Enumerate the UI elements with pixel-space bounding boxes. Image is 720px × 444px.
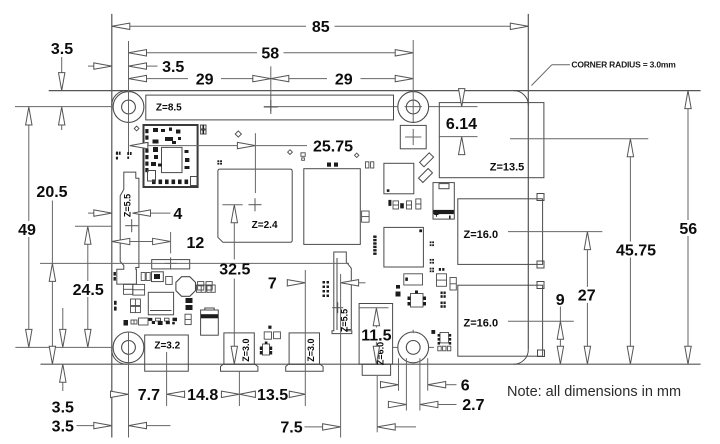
- left edge pad pairs: [114, 272, 117, 311]
- USB-C centerline extension: [166, 352, 168, 406]
- small pads top area: [134, 126, 359, 165]
- 6.14 reference line at hole row: [429, 106, 478, 108]
- components near DSI bottom: [141, 272, 172, 285]
- dimension 3.5 left edge to hole: [88, 59, 184, 76]
- svg-text:3.5: 3.5: [51, 41, 73, 58]
- electrolytic capacitor bottom-left: [201, 308, 219, 335]
- capacitors above capacitor: [197, 285, 216, 292]
- mounting hole bottom-left pad: [113, 332, 144, 363]
- upper USB centerline extension: [508, 231, 602, 233]
- dimension 2.7 hole diameter: [388, 397, 484, 414]
- board top edge line (with extensions): [49, 90, 701, 92]
- svg-text:20.5: 20.5: [36, 184, 67, 201]
- CSI centerline extension: [340, 274, 342, 438]
- dimension 7.7: [111, 387, 161, 404]
- micro HDMI0 connector Z=3.0: [221, 333, 258, 371]
- micro HDMI1 connector Z=3.0: [286, 333, 323, 371]
- centerline hole top-right vertical: [412, 40, 414, 122]
- dimension 12: [112, 235, 205, 252]
- DSI centerline extension left: [75, 225, 112, 227]
- IC near bottom-right hole: [438, 333, 452, 345]
- extension line x=170.6 for 12: [170, 232, 172, 253]
- svg-text:Z=3.0: Z=3.0: [241, 338, 251, 361]
- svg-text:56: 56: [679, 221, 697, 238]
- dimension 9 lower USB center height: [556, 292, 565, 364]
- dimension 25.75 wireless module: [130, 139, 353, 156]
- hole 2.7mm extension lines: [406, 358, 420, 410]
- note all dimensions in mm: [507, 384, 681, 400]
- svg-text:58: 58: [261, 46, 279, 63]
- power input filter parts: [152, 257, 190, 269]
- PoE header: [400, 125, 426, 148]
- svg-text:3.5: 3.5: [52, 418, 74, 435]
- pad column left of CSI: [323, 281, 330, 297]
- inductor L1 octagon: [176, 277, 196, 297]
- SoC center mark: [249, 198, 262, 211]
- board right edge line (with extension above): [527, 14, 529, 350]
- dimension 56 overall height: [679, 91, 697, 365]
- parts between HDMI connectors: [260, 326, 281, 355]
- electrolytic capacitor near ethernet: [433, 183, 454, 220]
- svg-text:14.8: 14.8: [187, 387, 218, 404]
- svg-text:27: 27: [578, 288, 596, 305]
- board corner radius arc top-right: [514, 91, 529, 106]
- mounting hole top-left pad: [113, 92, 144, 123]
- GPIO header J8 Z=8.5: [146, 95, 394, 120]
- dimension 13.5: [239, 387, 305, 404]
- board corner radius arc bottom-left: [112, 350, 127, 365]
- svg-text:4: 4: [173, 206, 182, 223]
- USB stack upper Z=16.0: [458, 194, 544, 269]
- centerline hole top-left vertical: [128, 41, 130, 154]
- svg-text:49: 49: [18, 222, 36, 239]
- lower USB centerline extension: [508, 320, 574, 322]
- svg-text:Z=3.2: Z=3.2: [154, 340, 180, 351]
- dimension 3.5 bottom-left vertical: [52, 308, 74, 417]
- reference line y=263.4: [40, 262, 349, 264]
- svg-text:7: 7: [268, 276, 277, 293]
- svg-text:Z=13.5: Z=13.5: [490, 162, 525, 174]
- parts above bottom-right hole: [431, 292, 445, 334]
- svg-text:45.75: 45.75: [616, 242, 656, 259]
- parts right of audio jack: [396, 285, 427, 307]
- RAM chip: [304, 169, 361, 245]
- dimension 3.5 bottom horizontal: [52, 418, 171, 435]
- board corner radius arc top-left: [112, 91, 127, 106]
- ethernet jack Z=13.5: [439, 103, 544, 178]
- pads below PMIC: [148, 318, 177, 322]
- centerline mid between holes vertical: [270, 66, 272, 111]
- svg-text:Z=5.5: Z=5.5: [123, 194, 133, 217]
- components below PHY chip: [388, 199, 421, 209]
- pads below IC bottom-right: [438, 346, 451, 351]
- svg-text:9: 9: [556, 292, 565, 309]
- diagonal components near PoE: [418, 153, 433, 183]
- PoE header center mark: [405, 129, 421, 145]
- hole top-right crosshair: [405, 106, 422, 108]
- dimension 6 hole pad diameter: [381, 377, 470, 394]
- wireless module pads: [145, 128, 197, 186]
- hole bottom-right crosshair ticks: [393, 330, 434, 348]
- extension line x=255.4 for 25.75: [254, 133, 256, 193]
- svg-text:6: 6: [461, 377, 470, 394]
- capacitor column left: [124, 284, 145, 312]
- wireless module external pads: [201, 125, 206, 134]
- HDMI1 centerline extension: [304, 270, 306, 406]
- CSI center mark: [332, 302, 343, 313]
- svg-text:7.7: 7.7: [138, 387, 160, 404]
- svg-text:Z=3.0: Z=3.0: [306, 338, 316, 361]
- svg-text:7.5: 7.5: [280, 420, 302, 437]
- svg-text:6.14: 6.14: [446, 116, 477, 133]
- dimension 7.5 CSI to audio: [280, 420, 416, 437]
- svg-text:25.75: 25.75: [313, 139, 353, 156]
- svg-text:32.5: 32.5: [219, 262, 250, 279]
- SoC U1 Z=2.4: [218, 169, 292, 242]
- ethernet centerline extension: [510, 138, 648, 140]
- mounting hole bottom-right pad: [398, 332, 429, 363]
- HDMI0 centerline extension: [238, 371, 240, 406]
- capacitor left of PHY: [362, 211, 370, 222]
- svg-text:CORNER RADIUS = 3.0mm: CORNER RADIUS = 3.0mm: [571, 59, 676, 69]
- svg-text:Note: all dimensions in mm: Note: all dimensions in mm: [507, 384, 681, 400]
- dimension 11.5 audio center height: [361, 308, 391, 364]
- USB3 controller chip: [384, 227, 424, 267]
- dimension 45.75 ethernet center height: [616, 139, 656, 364]
- svg-text:13.5: 13.5: [257, 387, 288, 404]
- dimension 24.5 DSI center: [73, 226, 104, 347]
- RAM top pads: [327, 163, 338, 167]
- svg-text:85: 85: [312, 19, 330, 36]
- wireless module shield: [144, 125, 198, 187]
- capacitors near RAM top: [366, 162, 374, 168]
- svg-text:Z=8.5: Z=8.5: [156, 103, 182, 114]
- svg-text:12: 12: [187, 235, 205, 252]
- dimension 14.8: [167, 387, 240, 404]
- USB-C power connector Z=3.2: [145, 335, 189, 371]
- mounting hole top-right pad: [398, 92, 429, 123]
- audio jack Z=6.0: [359, 304, 393, 376]
- ethernet PHY chip: [384, 163, 414, 194]
- svg-text:Z=16.0: Z=16.0: [464, 229, 499, 241]
- board corner radius arc bottom-right: [514, 350, 529, 365]
- test pad column mid-right: [373, 236, 376, 255]
- dimension 85 overall width: [112, 19, 529, 36]
- dimension 3.5 top-left: [51, 41, 73, 130]
- dimension 6.14 ethernet offset: [439, 89, 477, 155]
- DSI display connector Z=5.5: [117, 172, 139, 284]
- centerline hole bottom-left vertical: [128, 332, 130, 438]
- PMIC chip: [148, 292, 173, 315]
- svg-text:24.5: 24.5: [73, 282, 104, 299]
- DSI center mark: [125, 219, 138, 232]
- bottom edge small parts row: [124, 318, 175, 326]
- board left edge line (with extensions): [111, 14, 113, 438]
- pads left of capacitor: [185, 298, 193, 325]
- svg-text:Z=16.0: Z=16.0: [464, 318, 499, 330]
- corner radius callout: [532, 59, 677, 85]
- components below USB3 chip: [404, 274, 457, 290]
- dimension 49 hole spacing vertical: [18, 107, 36, 347]
- dimension 27 upper USB center height: [578, 232, 596, 365]
- svg-text:3.5: 3.5: [52, 400, 74, 417]
- svg-text:3.5: 3.5: [162, 59, 184, 76]
- svg-text:29: 29: [335, 71, 353, 88]
- hole row bottom horizontal left segment: [15, 346, 113, 348]
- dimension 29 right: [271, 71, 413, 88]
- dimension 20.5: [36, 184, 67, 364]
- dimension 32.5 SoC center height: [219, 205, 250, 365]
- hole row top horizontal left segment: [15, 106, 113, 108]
- svg-text:Z=2.4: Z=2.4: [252, 220, 278, 231]
- hole row top horizontal mid segment: [264, 106, 399, 108]
- CSI camera connector Z=5.5: [332, 252, 352, 334]
- dimension 29 left: [129, 71, 271, 88]
- small pads left edge upper: [116, 152, 132, 160]
- audio jack centerline extension: [376, 376, 378, 432]
- dimension 7 HDMI1 to CSI: [268, 276, 366, 293]
- board bottom edge line (with extensions): [41, 363, 701, 365]
- dimension 4 DSI from edge: [88, 206, 182, 223]
- capacitors right of inductor: [198, 282, 213, 290]
- GPIO header center mark: [264, 100, 278, 114]
- hole pad 6mm extension lines: [399, 358, 428, 391]
- dimension 58 hole spacing: [129, 46, 414, 63]
- svg-text:29: 29: [196, 71, 214, 88]
- USB stack lower Z=16.0: [458, 282, 545, 357]
- pads right of USB3 chip: [430, 241, 445, 272]
- svg-text:2.7: 2.7: [462, 397, 484, 414]
